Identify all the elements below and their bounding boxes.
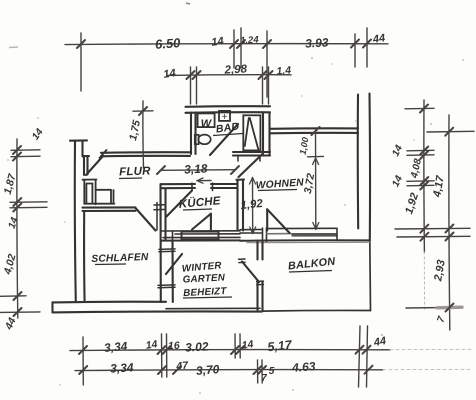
svg-text:+: + xyxy=(222,112,228,123)
dim 1.75 vertical xyxy=(133,101,153,168)
plus box xyxy=(219,111,230,121)
svg-text:3,70: 3,70 xyxy=(195,362,220,378)
wall right outer xyxy=(358,94,370,241)
svg-text:GARTEN: GARTEN xyxy=(182,272,226,285)
dim right col A extension pair y150 y155 xyxy=(407,149,434,152)
room label FLUR xyxy=(119,165,151,178)
svg-text:3.02: 3.02 xyxy=(185,339,209,354)
dim bottom row1 tick marks xyxy=(79,346,371,354)
wall flur top xyxy=(100,150,191,158)
svg-text:3,34: 3,34 xyxy=(110,360,134,375)
wall building bottom xyxy=(53,302,263,313)
flur direction arrow xyxy=(197,178,211,183)
dim top row2 line xyxy=(168,74,291,77)
dim 1.92 vertical with arrows xyxy=(250,178,256,234)
room label BAD xyxy=(213,120,243,135)
svg-text:14: 14 xyxy=(163,67,177,81)
entry door jamb xyxy=(83,156,90,175)
dim bottom row1 faint continuation xyxy=(390,348,472,350)
svg-text:16: 16 xyxy=(168,340,180,353)
dim left col extension pair y150 y156 xyxy=(11,149,40,152)
svg-text:47: 47 xyxy=(175,359,190,372)
wall left outer xyxy=(70,140,87,302)
dim 3.18 line xyxy=(157,166,239,174)
dim bottom row2 faint continuation xyxy=(383,368,470,370)
dim top row1 extension x267 xyxy=(266,31,268,97)
kueche window band xyxy=(161,231,240,241)
svg-text:1,92: 1,92 xyxy=(240,198,264,212)
dim right col A tick marks xyxy=(420,105,428,190)
svg-text:W: W xyxy=(201,118,213,130)
svg-text:7: 7 xyxy=(261,373,267,384)
schlafen door swing xyxy=(136,208,156,231)
wall wintergarten right lower xyxy=(257,281,264,310)
svg-text:6.50: 6.50 xyxy=(155,35,182,52)
wall wintergarten right upper xyxy=(239,241,263,263)
dim top row1 extension x81 xyxy=(80,33,82,91)
dim right column A line xyxy=(423,100,426,252)
dim bottom row1 extension x235 x240 xyxy=(234,334,236,358)
shower tub xyxy=(243,115,260,150)
wall balcony bottom xyxy=(262,309,371,312)
svg-text:FLUR: FLUR xyxy=(119,165,151,178)
dim bottom row2 tick marks xyxy=(79,366,372,374)
wintergarten door leaf xyxy=(242,262,259,283)
dim right col A faint continuation xyxy=(423,252,425,310)
svg-text:5: 5 xyxy=(269,366,275,377)
dim top row1 extension x241 xyxy=(240,28,242,68)
kueche balcony door leaf xyxy=(192,214,211,230)
dim bottom row1 line xyxy=(70,350,390,351)
dim left col extension pair y202 y207 xyxy=(10,201,47,204)
dim bottom row1 extension x161 x166 xyxy=(161,334,163,377)
wohnen door swing xyxy=(239,154,264,178)
svg-text:3,18: 3,18 xyxy=(184,161,208,176)
dim top row1 tick marks xyxy=(77,40,371,49)
dim left col tick marks xyxy=(13,146,22,316)
dim top row1 extension x367 xyxy=(366,28,368,67)
wall balcony right xyxy=(369,241,372,311)
dim right pair tick marks xyxy=(420,225,453,241)
dim top row2 extension x190.5 xyxy=(190,67,192,104)
dim top row1 line xyxy=(65,43,388,46)
dim top row2 tick marks xyxy=(187,71,273,79)
svg-text:44: 44 xyxy=(371,32,386,46)
dim top row1 extension x234 xyxy=(233,30,235,68)
room label SCHLAFEN xyxy=(91,252,149,265)
wall kueche top xyxy=(161,183,237,191)
svg-text:44: 44 xyxy=(372,335,387,349)
toilet xyxy=(195,135,211,145)
entry door swing xyxy=(86,156,103,175)
wintergarten left door swing xyxy=(166,254,182,274)
svg-text:5,17: 5,17 xyxy=(267,338,294,355)
wohnen balcony door leaf xyxy=(267,209,289,233)
dim right col B tick y131 xyxy=(445,128,453,136)
dim bottom row1 extension x360 x367 xyxy=(359,326,361,387)
wall schlafen kueche divider xyxy=(154,185,173,303)
wintergarten left wall tick dashes xyxy=(158,249,175,288)
wall bathroom top xyxy=(186,106,271,113)
dim right column B line xyxy=(448,115,451,330)
dim left col extension pair y296 y312 xyxy=(0,295,26,298)
dim 1.00 3.72 vertical with arrows xyxy=(308,127,324,230)
wohnen window band xyxy=(240,228,370,243)
svg-text:3.93: 3.93 xyxy=(305,35,329,50)
room label BEHEIZT xyxy=(183,286,232,299)
dim right pair lines y228 y236 xyxy=(395,227,470,230)
dim top row2 extension x262.5 xyxy=(262,67,264,104)
dim right col B extension y131 xyxy=(427,130,474,133)
bathroom door swing xyxy=(210,124,238,155)
wall schlafen west inner xyxy=(83,211,86,302)
stray mark top left xyxy=(9,46,18,49)
wall bathroom left xyxy=(191,113,196,155)
dim right col A extension pair y181 y185 xyxy=(407,180,434,183)
room label KUECHE xyxy=(178,194,221,211)
kueche door swing xyxy=(166,191,192,218)
wall bathroom right xyxy=(263,113,270,156)
svg-text:SCHLAFEN: SCHLAFEN xyxy=(91,252,149,265)
room label BALKON xyxy=(287,256,335,273)
stray mark top center xyxy=(186,3,190,4)
wall bathroom bottom xyxy=(233,152,270,161)
dim left column line xyxy=(16,139,19,318)
dim top row2 extension x268.5 xyxy=(268,67,270,104)
dim top row1 extension x355 xyxy=(354,34,356,67)
svg-text:2,98: 2,98 xyxy=(223,63,248,76)
svg-text:4.63: 4.63 xyxy=(291,359,317,375)
svg-text:14: 14 xyxy=(211,35,225,49)
wall wohnen left xyxy=(237,180,245,231)
dim bottom row1 extension x83 xyxy=(82,337,84,385)
stairs closet xyxy=(83,180,115,205)
dim right col A extension y108 xyxy=(405,107,434,110)
dim bottom row2 extension x257 x262 xyxy=(257,360,259,383)
dim top row2 extension x196.5 xyxy=(196,67,198,104)
svg-text:3,34: 3,34 xyxy=(103,339,128,355)
washing machine W box xyxy=(198,113,215,127)
wall right of bathroom xyxy=(270,128,358,133)
svg-text:14: 14 xyxy=(241,338,254,352)
room label WOHNEN xyxy=(255,177,304,191)
svg-text:14: 14 xyxy=(145,338,158,352)
dim right bottom cross y307 xyxy=(406,304,462,312)
wall schlafen top xyxy=(83,207,136,211)
svg-text:1.24: 1.24 xyxy=(240,34,260,46)
svg-text:1.4: 1.4 xyxy=(276,64,292,77)
dim bottom row2 line xyxy=(75,370,383,371)
